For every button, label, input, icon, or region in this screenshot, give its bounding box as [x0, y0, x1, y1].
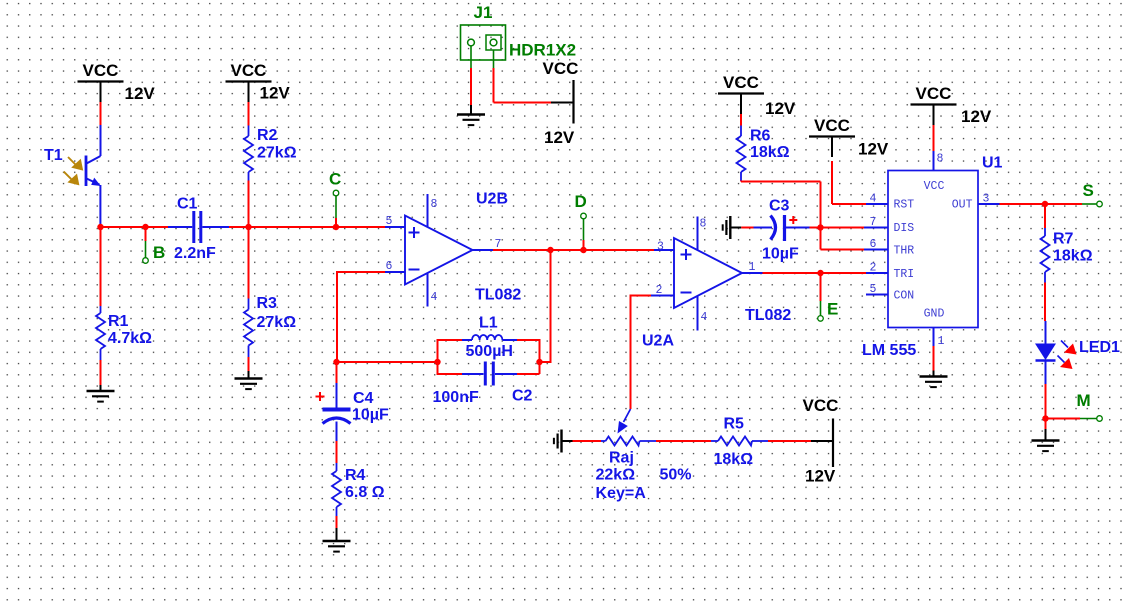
- svg-text:U2A: U2A: [642, 333, 674, 350]
- timer U1 TRI lead pin 2: [866, 272, 888, 274]
- power VCC (RST) 12V: [809, 116, 889, 159]
- wire feedback vertical to tank: [336, 271, 338, 362]
- wire bus T1 to C1: [101, 226, 169, 228]
- svg-text:12V: 12V: [765, 99, 796, 118]
- wire C1 to R2/R3 junction: [229, 226, 249, 228]
- power VCC (555 pin8) 12V: [911, 84, 992, 126]
- wire DIS junction down to THR: [820, 228, 822, 250]
- ground (C3) rotated: [730, 227, 741, 229]
- svg-text:2: 2: [870, 262, 877, 275]
- op-amp U2A: [674, 238, 742, 308]
- LED1 light arrow 2: [1058, 356, 1073, 370]
- ground (R3): [248, 371, 250, 379]
- svg-text:5: 5: [870, 283, 877, 296]
- node junction OUT/R7: [1042, 201, 1048, 207]
- svg-text:J1: J1: [474, 3, 493, 22]
- svg-text:LED1: LED1: [1079, 339, 1120, 356]
- node E stub: [820, 273, 822, 316]
- op-amp U2A pin 2 lead: [651, 295, 675, 297]
- node M terminal: [1097, 416, 1103, 422]
- svg-text:VCC: VCC: [723, 73, 759, 92]
- resistor R3 27k: [244, 227, 253, 371]
- svg-text:VCC: VCC: [916, 84, 952, 103]
- wire DIS junction to pin 7: [821, 227, 865, 229]
- svg-text:50%: 50%: [660, 467, 692, 484]
- power VCC (T1 supply) 12V: [78, 61, 156, 103]
- node B stub: [145, 227, 147, 258]
- svg-text:R2: R2: [257, 127, 278, 144]
- svg-text:18kΩ: 18kΩ: [714, 451, 754, 468]
- svg-text:S: S: [1083, 181, 1094, 200]
- wire pin 6 feedback horizontal: [337, 271, 385, 273]
- node junction M/ground: [1042, 415, 1048, 421]
- svg-text:VCC: VCC: [803, 396, 839, 415]
- svg-text:4: 4: [870, 193, 877, 206]
- svg-text:6: 6: [386, 260, 393, 273]
- op-amp U2B: [405, 216, 473, 285]
- polarity + (C4): [316, 392, 325, 401]
- wire VCC to pin 8: [933, 125, 935, 151]
- node junction tank/C4: [333, 359, 339, 365]
- svg-text:2: 2: [656, 284, 663, 297]
- svg-text:12V: 12V: [805, 467, 836, 486]
- resistor R5 18k: [711, 437, 768, 446]
- svg-text:HDR1X2: HDR1X2: [509, 41, 576, 60]
- svg-text:Raj: Raj: [609, 450, 634, 467]
- svg-text:U1: U1: [982, 155, 1003, 172]
- wire feedback to tank right: [540, 361, 552, 363]
- wire output feedback vertical: [550, 250, 552, 362]
- svg-text:C3: C3: [769, 198, 790, 215]
- wire tank right edge bottom: [539, 362, 541, 374]
- node tank right: [536, 359, 542, 365]
- svg-text:R4: R4: [345, 467, 366, 484]
- wire node C to U2B pin 5: [336, 226, 385, 228]
- node junction DIS: [817, 224, 823, 230]
- svg-text:12V: 12V: [961, 107, 992, 126]
- LED LED1: [1035, 321, 1056, 384]
- svg-text:12V: 12V: [544, 128, 575, 147]
- wire U2B pin 6 lead: [385, 271, 406, 273]
- svg-text:5: 5: [386, 215, 393, 228]
- wire tank top left: [438, 339, 463, 341]
- svg-text:22kΩ: 22kΩ: [596, 467, 636, 484]
- wire LED to M junction: [1045, 384, 1047, 419]
- svg-text:VCC: VCC: [924, 180, 945, 193]
- svg-text:TRI: TRI: [894, 268, 915, 281]
- capacitor C3 10µF polarized: [754, 215, 810, 241]
- svg-text:10µF: 10µF: [352, 407, 389, 424]
- node S lead: [1082, 203, 1097, 205]
- svg-text:R3: R3: [257, 295, 278, 312]
- svg-text:C4: C4: [353, 390, 374, 407]
- wire VCC to R2: [248, 102, 250, 126]
- svg-text:THR: THR: [894, 245, 915, 258]
- resistor R7 18k: [1041, 204, 1050, 321]
- svg-text:VCC: VCC: [231, 61, 267, 80]
- op-amp U2A pin 3 lead: [654, 249, 675, 251]
- svg-text:E: E: [827, 300, 838, 319]
- svg-text:DIS: DIS: [894, 222, 915, 235]
- svg-text:8: 8: [937, 153, 944, 166]
- node D stub: [583, 219, 585, 250]
- svg-text:C2: C2: [512, 388, 533, 405]
- ground (R1): [100, 385, 102, 391]
- svg-text:3: 3: [657, 241, 664, 254]
- polarity + (C3): [789, 216, 797, 224]
- svg-text:T1: T1: [44, 147, 63, 164]
- timer U1 OUT lead pin 3: [978, 203, 1000, 205]
- ground (R4): [336, 528, 338, 541]
- svg-text:4.7kΩ: 4.7kΩ: [108, 330, 152, 347]
- svg-text:GND: GND: [924, 308, 945, 321]
- node junction R2/R3/bus: [245, 224, 251, 230]
- svg-text:8: 8: [700, 218, 707, 231]
- potentiometer wiper arrow: [618, 409, 631, 434]
- wire junction to C4: [336, 362, 338, 383]
- wire VCC to RST: [832, 161, 866, 204]
- wire ground to C3: [741, 227, 753, 229]
- node junction output/E: [817, 270, 823, 276]
- node C stub: [335, 196, 337, 227]
- wire Raj to R5: [656, 440, 711, 442]
- node junction feedback tap: [547, 247, 553, 253]
- node C terminal: [333, 190, 339, 196]
- op-amp U2A pin 4 stub: [697, 296, 699, 331]
- wire R6 to DIS/THR net: [741, 181, 821, 228]
- timer U1 CON lead pin 5: [866, 294, 888, 296]
- op-amp U2A output lead pin 1: [742, 272, 763, 274]
- svg-text:10µF: 10µF: [762, 246, 799, 263]
- power VCC (J1) 12V rotated: [543, 59, 579, 147]
- svg-text:500µH: 500µH: [466, 343, 513, 360]
- svg-text:VCC: VCC: [814, 116, 850, 135]
- wire C4 to R4: [336, 441, 338, 463]
- svg-text:R5: R5: [724, 416, 745, 433]
- wire junction to tank left: [337, 361, 438, 363]
- wire tank bottom left: [438, 373, 463, 375]
- svg-text:18kΩ: 18kΩ: [750, 144, 790, 161]
- wire U2A output to TRI: [763, 272, 867, 274]
- wire tank top right: [517, 339, 540, 341]
- node junction T1/R1/bus: [97, 224, 103, 230]
- node D terminal: [581, 213, 587, 219]
- svg-text:27kΩ: 27kΩ: [257, 145, 297, 162]
- inductor L1 500uH: [462, 335, 517, 340]
- resistor R2 27k: [244, 126, 253, 228]
- wire junction to ground: [1045, 419, 1047, 430]
- timer U1 THR lead pin 6: [864, 249, 888, 251]
- op-amp U2B output lead pin 7: [473, 249, 494, 251]
- wire tank bottom right: [517, 373, 540, 375]
- node S terminal: [1097, 201, 1103, 207]
- capacitor C2 100nF: [462, 362, 517, 386]
- timer U1 pin 8 stub: [933, 151, 935, 171]
- wire tank left edge bottom: [437, 362, 439, 375]
- wire R5 to VCC: [768, 440, 811, 442]
- resistor R6 18k: [737, 126, 746, 182]
- op-amp U2B pin 4 stub: [427, 273, 429, 307]
- svg-text:12V: 12V: [260, 84, 291, 103]
- svg-text:27kΩ: 27kΩ: [257, 314, 297, 331]
- wire pin 1 to ground: [933, 346, 935, 371]
- node D junction: [580, 247, 586, 253]
- svg-text:VCC: VCC: [83, 61, 119, 80]
- node B junction: [142, 224, 148, 230]
- connector J1 HDR1X2: [461, 25, 506, 60]
- svg-text:OUT: OUT: [952, 199, 973, 212]
- op-amp U2B pin 8 stub: [427, 194, 429, 227]
- svg-text:Key=A: Key=A: [596, 485, 647, 502]
- svg-text:12V: 12V: [858, 140, 889, 159]
- svg-text:C: C: [329, 170, 341, 189]
- node C junction: [333, 224, 339, 230]
- node M wire: [1046, 418, 1097, 420]
- svg-text:6.8 Ω: 6.8 Ω: [345, 484, 385, 501]
- svg-text:CON: CON: [894, 290, 915, 303]
- ground (LED): [1045, 429, 1047, 441]
- T1 photo arrow 2: [64, 172, 80, 186]
- svg-text:L1: L1: [479, 315, 498, 332]
- capacitor C1 2.2nF: [168, 211, 229, 243]
- svg-text:7: 7: [870, 216, 877, 229]
- svg-text:100nF: 100nF: [433, 389, 479, 406]
- svg-text:R6: R6: [750, 128, 771, 145]
- wire potentiometer riser: [630, 295, 632, 410]
- power VCC (R5) 12V rotated: [803, 396, 839, 486]
- wire tank right edge top: [539, 339, 541, 362]
- node E terminal: [818, 316, 824, 322]
- svg-text:VCC: VCC: [543, 59, 579, 78]
- svg-text:1: 1: [749, 261, 756, 274]
- timer U1 LM555 body: [888, 171, 978, 328]
- svg-text:RST: RST: [894, 199, 915, 212]
- potentiometer Raj 22k: [601, 437, 656, 446]
- svg-text:R7: R7: [1053, 231, 1074, 248]
- wire tank left riser: [437, 339, 439, 362]
- timer U1 RST lead pin 4: [866, 203, 888, 205]
- svg-text:12V: 12V: [125, 84, 156, 103]
- power VCC (R6) 12V: [718, 73, 796, 118]
- op-amp U2A pin 8 stub: [697, 217, 699, 251]
- timer U1 GND lead pin 1: [933, 328, 935, 347]
- wire OUT to node S: [1000, 203, 1083, 205]
- svg-text:4: 4: [701, 311, 708, 324]
- op-amp U2B pin 5 lead: [385, 226, 406, 228]
- svg-text:2.2nF: 2.2nF: [174, 245, 216, 262]
- transistor T1 (photo NPN): [86, 125, 101, 227]
- svg-text:18kΩ: 18kΩ: [1053, 248, 1093, 265]
- wire J1 pin1 lead: [470, 46, 472, 105]
- power VCC (R2) 12V: [226, 61, 291, 103]
- wire VCC to T1 collector: [100, 102, 102, 125]
- wire J1 pin2 lead: [494, 50, 552, 103]
- svg-text:1: 1: [938, 335, 945, 348]
- wire C3 to DIS junction: [810, 227, 821, 229]
- wire VCC to R6: [740, 114, 742, 126]
- wire ground to Raj: [573, 440, 602, 442]
- svg-text:C1: C1: [177, 196, 198, 213]
- capacitor C4 10µF polarized: [323, 383, 351, 441]
- svg-text:TL082: TL082: [475, 287, 521, 304]
- wire pin2 to potentiometer corner: [631, 295, 652, 297]
- resistor R4 6.8: [332, 463, 341, 528]
- svg-text:LM 555: LM 555: [862, 342, 916, 359]
- svg-text:U2B: U2B: [476, 191, 508, 208]
- svg-text:R1: R1: [108, 313, 129, 330]
- svg-text:3: 3: [983, 193, 990, 206]
- wire bus R2 junction to node C: [249, 226, 337, 228]
- T1 photo arrow 1: [68, 157, 83, 171]
- ground (U1): [933, 371, 935, 377]
- LED1 light arrow 1: [1061, 341, 1077, 355]
- ground (J1): [470, 105, 472, 115]
- node B terminal: [143, 258, 149, 264]
- svg-text:4: 4: [431, 291, 438, 304]
- svg-text:B: B: [153, 243, 165, 262]
- svg-text:M: M: [1077, 391, 1091, 410]
- wire THR horizontal: [821, 249, 865, 251]
- wire U2B output to U2A pin 3: [493, 249, 654, 251]
- ground (Raj) rotated: [562, 440, 573, 442]
- svg-text:TL082: TL082: [745, 307, 791, 324]
- node tank left: [434, 359, 440, 365]
- resistor R1 4.7k: [96, 227, 105, 385]
- svg-text:D: D: [575, 192, 587, 211]
- timer U1 DIS lead pin 7: [864, 227, 888, 229]
- svg-text:6: 6: [870, 238, 877, 251]
- svg-text:8: 8: [431, 198, 438, 211]
